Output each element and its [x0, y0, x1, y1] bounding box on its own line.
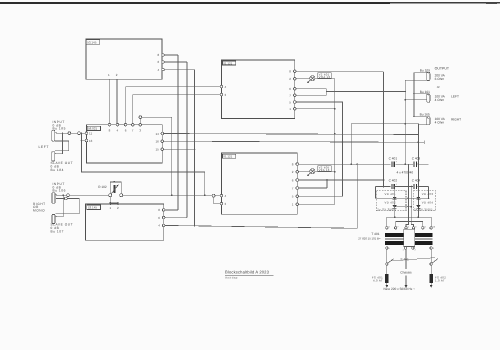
wire pin1 down to 58.021 pin 8 — [108, 79, 110, 125]
capacitor C404 — [414, 183, 420, 189]
output rating 200 VA 6 Ohm — [435, 74, 446, 82]
node circle above pin3 — [139, 116, 142, 119]
svg-text:Bu 107: Bu 107 — [51, 229, 64, 233]
junction dot link2 center — [408, 206, 410, 208]
junction dot slave tip left — [62, 132, 64, 134]
svg-text:T 401: T 401 — [371, 232, 379, 236]
wire 51.121 pins 6+7 loop — [296, 89, 405, 95]
output rating 100 VA 4 Ohm right — [435, 117, 446, 125]
wire jack Bu109 sleeve down rail — [405, 80, 426, 164]
wire rectifier link y206.6 — [395, 206, 412, 208]
svg-text:14: 14 — [156, 132, 160, 136]
connector point circle right input — [67, 194, 70, 197]
junction dot x194.5/bus15 — [194, 148, 196, 150]
wire right drop from lower rail to link — [428, 187, 430, 199]
node junction circle left of lower 51.121 — [212, 194, 215, 197]
wire lower 51.121 pin1 — [299, 203, 335, 205]
fuse FS402 — [429, 265, 432, 283]
fuse FS401 labels — [372, 275, 383, 282]
wire node to vertical x171.6 down to mono line — [142, 117, 172, 195]
svg-text:C 404: C 404 — [412, 178, 421, 182]
wire bus pin16 long — [164, 141, 425, 142]
potentiometer R102 — [109, 181, 123, 197]
pin 8 of 53.145 — [158, 53, 165, 57]
IC module 53.145 (bottom left) — [86, 204, 164, 240]
svg-text:Netz 220 v 50/60 Hz ~: Netz 220 v 50/60 Hz ~ — [384, 287, 416, 291]
wire second center column to pin 3 — [411, 187, 413, 228]
capacitor C401 — [392, 161, 398, 167]
svg-text:LEFT: LEFT — [39, 145, 50, 149]
wire vertical bus x187 — [186, 62, 188, 218]
pin 1 of 51.121 — [289, 107, 296, 111]
junction dot x171.6 on mono line — [171, 194, 173, 196]
wire 51.121 pin5 to lower pin5 — [296, 102, 342, 196]
svg-text:OUTPUT: OUTPUT — [435, 67, 450, 71]
wire right input tip to R102 — [56, 194, 109, 196]
svg-text:2x SY 350/1: 2x SY 350/1 — [377, 208, 396, 212]
wire jack chain vertical x414 — [414, 73, 427, 116]
svg-text:Bu 184: Bu 184 — [51, 168, 64, 172]
junction dot ground loop top — [81, 132, 83, 134]
rectifier dashed box VD401/VD402 — [376, 191, 406, 211]
wire 58.021 pin3 up to node circle — [139, 119, 141, 124]
svg-text:2x SY 350/1: 2x SY 350/1 — [414, 208, 433, 212]
svg-text:6 Ohm: 6 Ohm — [435, 77, 445, 81]
svg-text:Bu 109: Bu 109 — [420, 68, 430, 72]
pin 16 of 58.021 — [156, 140, 164, 144]
wire left input tip to pin 11 — [57, 132, 86, 134]
svg-text:53.145: 53.145 — [88, 206, 98, 210]
svg-text:11: 11 — [89, 132, 92, 136]
junction dot right diode column on outer bracket — [418, 216, 420, 218]
slave out Bu184 labels — [51, 161, 74, 172]
svg-text:Chassis: Chassis — [400, 271, 412, 275]
junction dot speaker line on rail — [404, 91, 406, 93]
wire vertical bus x178 — [177, 55, 179, 210]
input connector Bu106 labels — [53, 182, 66, 192]
wire slave link vertical left — [56, 133, 63, 154]
pin 13 of 58.021 — [85, 139, 92, 143]
svg-text:C 403: C 403 — [412, 157, 421, 161]
svg-text:1,0 AT: 1,0 AT — [435, 279, 445, 283]
terminal tick end of bus16 — [423, 140, 425, 144]
wire pin2 down to 58.021 pin 4 — [116, 79, 118, 125]
svg-text:53.145: 53.145 — [87, 40, 97, 44]
wire 58.021 pin7 up to 51.121 pin3 — [133, 95, 220, 124]
transformer T401 windings — [385, 229, 432, 246]
wire rectifier link y198.3 — [376, 197, 429, 199]
junction dot x342.5 on bus16 — [342, 141, 344, 143]
svg-text:4 x 4700/40: 4 x 4700/40 — [397, 170, 414, 174]
wire right input ring — [55, 199, 79, 214]
junction dot bus14 end on x418.4 — [418, 134, 420, 136]
rectifier dashed box VD403/VD404 — [413, 191, 435, 211]
wire vertical bus x194.5 — [194, 70, 196, 226]
junction dot diode column on outer bracket — [394, 216, 396, 218]
junction dot right slave tip — [62, 194, 64, 196]
svg-text:Bu 165: Bu 165 — [420, 113, 430, 117]
pin 5 of lower 51.121 — [292, 195, 299, 199]
wire lower 51.121 pins 6+7 loop — [299, 180, 384, 188]
wire mono line into pins 3 and 4 — [123, 195, 220, 204]
junction dot pins67 line on x383.5 — [383, 179, 385, 181]
output rating 100 VA 4 Ohm left — [435, 95, 446, 103]
wire left input sleeve loop — [55, 141, 69, 151]
jack Bu161 — [427, 94, 430, 102]
wire left diode column — [394, 187, 396, 218]
wire ground bus x81.5 down and right at y172 — [82, 133, 205, 195]
svg-text:RIGHT: RIGHT — [451, 117, 461, 121]
pin 3 top of 58.021 — [139, 123, 142, 132]
pin 5 of 51.121 — [289, 100, 296, 104]
pin 15 of 58.021 — [156, 148, 164, 152]
pin 1 of lower 51.121 — [292, 203, 299, 207]
junction dot pin13 branch — [81, 140, 83, 142]
wire 53.145 pin 6 right — [164, 61, 187, 63]
svg-text:Bu 106: Bu 106 — [53, 189, 66, 193]
wire 58.021 pin6 up to 51.121 pin4 — [126, 87, 221, 124]
pin 7 top of 58.021 — [131, 123, 134, 132]
junction dot pin7 riser on pin6 wire — [326, 179, 328, 181]
pin 4 of lower 51.121 — [220, 194, 226, 198]
svg-text:2T 820 15 101 B=: 2T 820 15 101 B= — [358, 237, 381, 241]
jack Bu106 (right input) — [52, 193, 57, 204]
pin 7 of 51.121 — [289, 94, 296, 98]
pin 8 of lower 51.121 — [292, 162, 299, 166]
pin 4 of 53.145 — [158, 68, 165, 72]
slave out Bu107 labels — [51, 223, 74, 234]
wire right slave link — [56, 195, 63, 216]
node RIGHT OR MONO label — [33, 202, 46, 213]
junction dot pin1 on x334.8 — [334, 108, 336, 110]
pin 3 of 51.121 left — [220, 93, 226, 97]
wire transformer inner bracket — [396, 221, 423, 226]
lamp V2 401 labels — [318, 72, 332, 79]
pin 4 top of 58.021 — [116, 123, 119, 132]
svg-text:16: 16 — [156, 140, 160, 144]
junction dot link1 right drop — [428, 197, 430, 199]
junction dot link1 center — [408, 197, 410, 199]
capacitor C403 — [414, 161, 420, 167]
diode VD402 — [393, 205, 397, 208]
junction dot x383.6 on cap rail — [383, 163, 385, 165]
svg-text:block diagr.: block diagr. — [225, 277, 238, 280]
wire bus pin14 long — [164, 134, 419, 135]
lamp V2 405 — [299, 169, 335, 177]
jack Bu109 — [427, 72, 430, 81]
fuse FS401 — [385, 265, 388, 283]
wire jack3 feed from x351.2 — [351, 124, 418, 165]
wire jack Bu165 sleeve — [418, 124, 426, 126]
wire 53.145 pin 8 right — [164, 54, 178, 56]
wire lower 53.145 pin4 ground run to transformer rail — [165, 164, 357, 228]
junction dot jack chain at Bu165 — [413, 115, 415, 117]
junction dot Bu161 sleeve on rail — [404, 99, 406, 101]
junction dot x383.6 on jack3 feed — [383, 123, 385, 125]
svg-text:15: 15 — [156, 148, 160, 152]
junction dot x194.5 end on ground run — [194, 225, 196, 227]
pin 4 of lower 53.145 — [158, 224, 165, 228]
svg-text:Bu 161: Bu 161 — [420, 90, 430, 94]
mains arrow left — [385, 283, 388, 288]
junction dot x405.3 on cap rail — [404, 163, 406, 165]
junction dot x417.5 bus16 end — [418, 141, 420, 143]
mains arrow right — [430, 283, 433, 288]
junction dot R102 tap right — [117, 202, 119, 204]
diode VD401 — [393, 197, 397, 200]
junction dot link1 left diode — [394, 197, 396, 199]
pin 8 of lower 53.145 — [158, 208, 165, 212]
pin 6 of 51.121 — [289, 87, 296, 91]
junction dot x417.5 cap rail — [418, 163, 420, 165]
title Blockschaltbild A 2023 — [225, 269, 274, 279]
junction dot rail end on feed bus — [404, 123, 406, 125]
diode VD404 — [416, 205, 420, 208]
svg-text:LEFT: LEFT — [451, 95, 459, 99]
pin 2 top of lower 53.145 — [117, 203, 119, 210]
junction dot x187/bus16 — [186, 140, 188, 142]
junction dot x383.6 on lower cap rail — [383, 186, 385, 188]
pin 6 top of 58.021 — [124, 123, 127, 132]
jack Bu185 (left input) — [52, 130, 57, 141]
wire lower 53.145 pin8 to x178 — [165, 209, 178, 211]
wire lower 53.145 pin6 to x187 — [165, 217, 187, 219]
input connector Bu185 labels — [53, 120, 66, 131]
svg-text:Blockschaltbild A 2023: Blockschaltbild A 2023 — [225, 269, 270, 274]
jack Bu165 — [427, 117, 430, 125]
svg-text:13: 13 — [89, 139, 93, 143]
switch S401 — [386, 249, 438, 265]
chassis arrow — [405, 276, 408, 288]
connector point circle 2 — [78, 132, 81, 135]
pin 2 of 51.121 — [289, 77, 296, 81]
junction dot R102 tap left — [109, 202, 111, 204]
wire center tap column — [406, 164, 408, 227]
junction dot diode column on lower rail — [394, 186, 396, 188]
wire center tap to chassis — [405, 249, 407, 268]
wire jack Bu161 sleeve — [405, 99, 426, 101]
pin 8 of 51.121 — [289, 70, 296, 74]
transformer T401 labels — [358, 232, 381, 240]
connector point circle right ring — [64, 197, 67, 200]
svg-text:R 102: R 102 — [98, 185, 107, 189]
connector point circle 1 — [68, 132, 71, 135]
wire 51.121 pin8 to output jack Bu109 — [296, 71, 383, 73]
svg-text:4,0 AT: 4,0 AT — [373, 279, 383, 283]
lamp V2 401 — [296, 76, 335, 84]
svg-text:VD 404: VD 404 — [422, 200, 434, 204]
junction dot link2 left — [394, 206, 396, 208]
pin 6 of lower 51.121 — [292, 178, 299, 182]
junction dot jack chain at Bu161 — [413, 93, 415, 95]
svg-text:C 402: C 402 — [389, 178, 398, 182]
junction dot x178/bus14 — [177, 133, 179, 135]
transformer T401 secondary pins — [386, 247, 435, 252]
diode VD403 — [416, 197, 420, 200]
junction dot ground run on cap rail — [356, 163, 358, 165]
pin 1 top of lower 53.145 — [110, 203, 112, 210]
wire vertical x383.5 to PSU — [383, 72, 385, 187]
svg-text:58.021: 58.021 — [88, 127, 98, 131]
wire vertical x334.8 (lamp chain) — [334, 79, 336, 205]
IC module 51.121 (power amp left) — [221, 60, 294, 118]
pin 14 of 58.021 — [156, 132, 164, 136]
lamp V2 405 labels — [318, 165, 332, 172]
wire cap rail lower y186.5 — [376, 186, 429, 188]
jack Bu107 (slave out right) — [52, 214, 57, 223]
pin 3 of lower 51.121 — [220, 202, 226, 206]
pin 6 of 53.145 — [158, 60, 165, 64]
junction dot y172 bus end on mono wire — [204, 194, 206, 196]
wire cap rail top y164.1 — [299, 163, 429, 165]
pin 6 of lower 53.145 — [158, 216, 165, 220]
svg-text:51.121: 51.121 — [223, 61, 232, 65]
IC module 51.121 (power amp right) — [221, 153, 297, 214]
svg-text:VD 403: VD 403 — [422, 192, 434, 196]
pin 4 of 51.121 left — [220, 85, 226, 89]
jack Bu184 (slave out left) — [52, 152, 57, 161]
wire R102 lower taps — [110, 197, 118, 204]
junction dot x334.8 on bus14 — [334, 133, 336, 135]
svg-text:MONO: MONO — [33, 209, 45, 213]
IC module 53.145 (top left) — [86, 39, 162, 79]
junction dot center tap on lower rail — [408, 186, 410, 188]
junction dot x334.8 lamp C — [334, 171, 336, 173]
junction dot x351.2 on cap rail — [350, 163, 352, 165]
junction dot x411.2 link2 — [410, 206, 412, 208]
wire vertical x418.4 — [417, 124, 419, 218]
wire branch to pin 13 — [82, 140, 86, 142]
fuse FS402 labels — [435, 275, 446, 282]
svg-text:S 401: S 401 — [400, 257, 409, 261]
wire pin15 to bus — [164, 148, 195, 150]
pin 8 top of 58.021 — [108, 123, 111, 132]
svg-text:51.121: 51.121 — [223, 155, 232, 159]
svg-text:4 Ohm: 4 Ohm — [435, 98, 445, 102]
transformer T401 primary pins — [386, 225, 436, 229]
pin 11 of 58.021 — [85, 132, 92, 136]
wire transformer outer bracket — [387, 217, 431, 226]
junction dot x417.5 lower rail — [418, 186, 420, 188]
svg-text:4 Ohm: 4 Ohm — [435, 120, 445, 124]
IC module 58.021 (input amp) — [87, 125, 163, 163]
wire 51.121 pin1 — [296, 108, 335, 110]
junction dot link1 right diode — [418, 197, 420, 199]
pin 7 of lower 51.121 — [292, 186, 299, 190]
junction dot x411.2 lower rail — [410, 186, 412, 188]
wire left drop from lower rail — [375, 187, 377, 199]
pin 2 of lower 51.121 — [292, 170, 299, 174]
capacitor C402 — [392, 183, 398, 189]
wire 53.145 pin 4 right — [164, 69, 194, 71]
